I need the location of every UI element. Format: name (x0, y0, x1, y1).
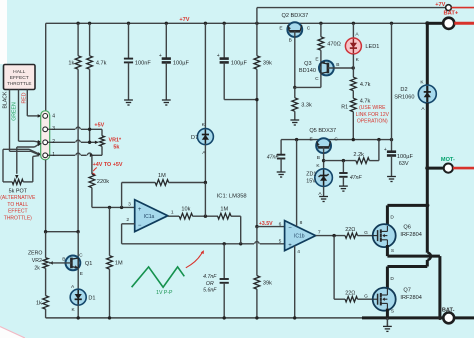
page margin white strip top-left (0, 0, 7, 64)
wire D7 anode down to feedback node (204, 145, 206, 183)
svg-text:+: + (384, 147, 387, 153)
wire IC1b output pin 7 (316, 235, 346, 237)
svg-text:THROTTLE): THROTTLE) (4, 216, 32, 222)
terminal +7V (446, 5, 452, 11)
svg-text:IRF2804: IRF2804 (400, 295, 421, 301)
svg-text:HALL: HALL (13, 69, 26, 75)
svg-text:TO HALL: TO HALL (7, 202, 28, 208)
transistor Q5 BDX37 (316, 138, 331, 153)
wire MOT- stub (427, 167, 444, 170)
resistor 39k lower (256, 227, 258, 276)
svg-text:Q7: Q7 (403, 288, 410, 294)
page margin white corner bottom-left (0, 326, 26, 338)
wire Q3 base to LED column (328, 67, 353, 69)
connector pin 1 (43, 153, 48, 158)
svg-text:+: + (159, 53, 162, 59)
svg-text:63V: 63V (399, 161, 409, 167)
svg-text:4.7k: 4.7k (360, 99, 371, 105)
capacitor 47nF left (280, 140, 282, 155)
ground 47nF right (342, 184, 344, 186)
wire Q3 collector down (320, 73, 322, 88)
svg-text:B: B (289, 37, 292, 43)
svg-text:G: G (364, 230, 368, 236)
ground 3.3k (294, 118, 296, 120)
wire IC1a pin 2 loop (122, 223, 135, 225)
ground 47nF left (280, 170, 282, 172)
wire MOT- node down to Q6 drain row (426, 168, 429, 205)
capacitor 100uF 63V (391, 140, 393, 152)
ground ZD1 (323, 195, 325, 197)
resistor 1k lower-left (43, 296, 49, 310)
svg-text:100µF: 100µF (173, 60, 190, 66)
svg-text:E: E (279, 25, 282, 31)
terminal MOT- (444, 164, 453, 173)
mosfet Q6 IRF2804 (373, 224, 396, 247)
ground 100uF 63V (391, 175, 393, 177)
svg-text:100µF: 100µF (231, 60, 248, 66)
svg-text:C: C (315, 76, 319, 82)
node pin 7 split (332, 234, 335, 237)
op-amp IC1b (285, 221, 316, 251)
svg-text:Q5 BDX37: Q5 BDX37 (309, 128, 336, 134)
resistor 4.7k upper right (350, 77, 356, 91)
wire to Q7 drain (387, 265, 427, 268)
connector pin 2 (43, 140, 48, 145)
resistor 4.7k (89, 23, 91, 56)
svg-text:E: E (309, 136, 312, 142)
wire +7V rail (46, 22, 428, 24)
svg-text:1: 1 (171, 209, 174, 215)
wire ZD1 anode to ground (323, 187, 325, 195)
mosfet Q7 IRF2804 (373, 288, 396, 311)
svg-text:7: 7 (318, 229, 321, 235)
arrow +4V-to-+5V pointer (93, 168, 97, 172)
potentiometer 5k POT (12, 179, 23, 184)
svg-text:22Ω: 22Ω (345, 291, 355, 297)
svg-text:470Ω: 470Ω (327, 41, 341, 47)
wire +7V branch to +7V terminal (256, 8, 258, 24)
resistor 1M feedback (121, 183, 123, 208)
svg-text:IC1a: IC1a (144, 214, 155, 220)
terminal BAT- (443, 313, 454, 324)
svg-text:IC1b: IC1b (294, 234, 305, 240)
resistor 1M to 0V (109, 207, 111, 255)
transistor Q2 BDX37 (287, 22, 302, 37)
wire 0V bus (46, 317, 363, 319)
svg-text:−: − (288, 225, 292, 231)
svg-text:LED1: LED1 (365, 44, 379, 50)
connector pin 3 (43, 127, 48, 132)
wire +7V to D7 (204, 23, 206, 128)
wire IC1b pin 8 supply (296, 140, 298, 227)
wire Q1 emitter to D1 (77, 268, 79, 290)
svg-text:BLACK: BLACK (2, 91, 8, 109)
diode D2 SR1060 (426, 23, 429, 85)
op-amp IC1a (135, 200, 168, 232)
svg-text:220k: 220k (97, 179, 109, 185)
wire Q2 base to Q3 collector (295, 86, 321, 88)
svg-text:C: C (307, 25, 311, 31)
svg-text:4.7nF: 4.7nF (203, 274, 217, 280)
wire 1M down to integrator net (240, 216, 242, 244)
waveform 1V P-P triangle (132, 267, 185, 287)
wire Q6 source to BAT- drop (386, 245, 389, 256)
svg-text:C: C (79, 252, 83, 258)
wire left feed from +7V rail down to connector pin 4 (45, 23, 47, 112)
svg-text:3: 3 (52, 126, 55, 132)
wire pin1 node down to VR2 (45, 160, 47, 232)
trimpot VR2 ZERO 2k (45, 232, 47, 258)
svg-text:S: S (391, 248, 394, 254)
svg-text:D2: D2 (400, 87, 407, 93)
svg-text:D1: D1 (88, 295, 95, 301)
resistor 3.3k (294, 87, 296, 98)
wire +7V column to node (391, 23, 393, 139)
wire 220k to IC1a pin 3 (92, 206, 135, 208)
svg-text:39k: 39k (263, 60, 272, 66)
svg-text:B: B (62, 257, 65, 263)
svg-text:D7: D7 (191, 135, 198, 141)
svg-text:R1: R1 (341, 104, 348, 110)
resistor R1 4.7k (350, 98, 356, 112)
svg-text:RED: RED (21, 92, 27, 103)
svg-text:+7V: +7V (435, 2, 445, 8)
resistor 22R lower (334, 298, 345, 300)
wire regulator node horizontal (281, 139, 391, 141)
wire pot wiper to pin 2 (16, 147, 18, 174)
resistor 1M output (218, 213, 232, 219)
ground 100uF (165, 98, 167, 100)
svg-text:2k: 2k (34, 266, 40, 272)
svg-text:Q6: Q6 (403, 225, 410, 231)
svg-text:+3.5V: +3.5V (259, 221, 273, 227)
svg-text:1k: 1k (68, 60, 74, 66)
svg-text:2: 2 (52, 139, 55, 145)
wire Q2 base down (294, 31, 296, 87)
terminal BAT+ (443, 18, 454, 29)
wire +7V to LED1 (352, 23, 354, 38)
svg-text:MOT-: MOT- (441, 157, 455, 163)
svg-text:2: 2 (126, 217, 129, 223)
svg-text:BD140: BD140 (299, 68, 316, 74)
zener ZD1 15V (315, 169, 333, 187)
wire Q6 drain row (387, 204, 427, 207)
capacitor 100nF (128, 23, 130, 58)
svg-text:Q2 BDX37: Q2 BDX37 (282, 13, 309, 19)
svg-text:8: 8 (300, 220, 303, 226)
svg-text:1: 1 (52, 152, 55, 158)
svg-text:ZERO: ZERO (28, 251, 42, 257)
wire pin 7 down to lower gate (333, 236, 335, 300)
svg-text:(USE WIRE: (USE WIRE (359, 105, 386, 111)
svg-text:1M: 1M (115, 261, 123, 267)
svg-text:E: E (80, 271, 83, 277)
svg-text:1k: 1k (36, 301, 42, 307)
transistor Q1 (77, 232, 79, 259)
svg-text:SR1060: SR1060 (394, 95, 414, 101)
svg-text:IRF2804: IRF2804 (400, 232, 421, 238)
svg-text:S: S (391, 309, 394, 315)
node Q5 base / 2.2k (322, 159, 325, 162)
wire green hall lead (18, 90, 20, 142)
node Q2 base / Q3 collector (293, 86, 296, 89)
resistor 2.2k (324, 160, 356, 162)
wire black hall lead (9, 90, 11, 152)
diode D1 (70, 289, 86, 305)
capacitor 100uF first (165, 23, 167, 58)
svg-text:+: + (138, 207, 142, 213)
wire IC1a output (168, 215, 179, 217)
svg-text:4.7k: 4.7k (96, 60, 107, 66)
svg-text:(ALTERNATIVE: (ALTERNATIVE (0, 195, 36, 201)
svg-text:Q3: Q3 (304, 61, 311, 67)
svg-text:B: B (336, 62, 339, 68)
svg-text:EFFECT: EFFECT (8, 209, 27, 215)
svg-text:15V: 15V (306, 178, 316, 184)
svg-text:39k: 39k (263, 281, 272, 287)
wire 100uF to 39k column (224, 99, 257, 101)
svg-text:5k POT: 5k POT (9, 188, 28, 194)
wire pin 3 row +5V (48, 128, 75, 130)
wire Q7 source to 0V bus (386, 309, 389, 318)
svg-text:D: D (390, 276, 394, 282)
svg-text:22Ω: 22Ω (345, 227, 355, 233)
svg-text:1M: 1M (220, 207, 228, 213)
svg-text:C: C (334, 136, 338, 142)
wire LED1 cathode down (352, 54, 354, 77)
svg-text:+5V: +5V (94, 123, 104, 129)
svg-text:G: G (364, 293, 368, 299)
svg-text:10k: 10k (181, 207, 190, 213)
svg-text:VR1*: VR1* (109, 138, 122, 144)
svg-text:+7V: +7V (179, 17, 189, 23)
wire VR2 node to Q1 collector (46, 231, 79, 233)
wire D1 cathode to 0V bus (77, 305, 79, 318)
svg-text:OPERATION): OPERATION) (357, 119, 388, 125)
svg-text:2.2k: 2.2k (353, 152, 364, 158)
wire D2 anode to MOT- node (426, 103, 429, 168)
svg-text:THROTTLE: THROTTLE (7, 81, 31, 86)
node Q6 drain junction (425, 203, 429, 207)
ground 100nF (128, 98, 130, 100)
wire 2.2k up to node (378, 140, 380, 161)
svg-text:1V P-P: 1V P-P (156, 290, 173, 296)
svg-text:5k: 5k (113, 145, 119, 151)
svg-text:47nF: 47nF (267, 154, 280, 160)
svg-text:LINK FOR 12V: LINK FOR 12V (356, 112, 390, 118)
svg-text:47nF: 47nF (350, 175, 363, 181)
svg-text:4: 4 (52, 114, 55, 120)
svg-text:Q1: Q1 (85, 261, 92, 267)
resistor 220k (91, 155, 93, 174)
svg-text:3.3k: 3.3k (301, 103, 312, 109)
LED LED1 (345, 38, 361, 54)
transistor Q3 BD140 (319, 61, 334, 76)
resistor 22R upper (345, 233, 357, 238)
capacitor 47nF right (342, 161, 344, 173)
node 39k junctions (255, 98, 258, 101)
wire Q5 base to ZD1 (323, 147, 325, 168)
svg-text:1M: 1M (158, 173, 166, 179)
wire pot right end up to pin 1 (23, 181, 33, 183)
svg-text:+: + (288, 243, 292, 249)
node Q3 base junction (352, 66, 355, 69)
resistor 39k upper (256, 23, 258, 56)
wire integrator net pin2 to IC1b pin 5 (122, 243, 254, 245)
hall effect throttle box (4, 65, 36, 90)
svg-text:+: + (217, 53, 220, 59)
svg-text:4.7k: 4.7k (360, 82, 371, 88)
svg-text:6: 6 (279, 221, 282, 227)
svg-text:GREEN: GREEN (12, 102, 18, 121)
capacitor 100uF second (223, 23, 225, 58)
wire IC1b pin 6 input (257, 226, 285, 228)
wire pot left end up to pin 1 (2, 149, 4, 182)
node MOT- (425, 166, 429, 170)
svg-text:VR2: VR2 (32, 258, 42, 264)
svg-text:100µF: 100µF (397, 154, 414, 160)
connector pin 4 (43, 114, 48, 119)
svg-text:3: 3 (128, 201, 131, 207)
svg-text:BAT+: BAT+ (443, 11, 458, 17)
resistor 470R (320, 23, 322, 37)
svg-text:ZD1: ZD1 (306, 171, 316, 177)
capacitor 4.7nF timing (223, 244, 225, 279)
wire red hall lead (26, 90, 28, 116)
ground main (386, 318, 388, 326)
node output junction (204, 215, 207, 218)
wire pin 2 row to VR1 wiper (48, 141, 75, 143)
svg-text:+4V TO +5V: +4V TO +5V (93, 162, 123, 168)
svg-text:E: E (315, 56, 318, 62)
svg-text:5: 5 (279, 239, 282, 245)
node BAT+ junction (425, 21, 429, 25)
node +7V rail junctions (76, 22, 79, 25)
svg-text:100nF: 100nF (135, 60, 151, 66)
wire feedback node to output junction (204, 183, 206, 217)
svg-text:OR: OR (206, 281, 214, 287)
wire thick BAT+ stub (427, 22, 443, 25)
svg-text:4: 4 (297, 249, 300, 255)
svg-text:IC1: LM358: IC1: LM358 (217, 193, 247, 199)
wire IC1b pin 4 to 0V (294, 246, 296, 318)
svg-text:−: − (138, 223, 142, 229)
svg-text:5.6nF: 5.6nF (203, 288, 217, 294)
resistor 10k (179, 213, 193, 219)
diode D7 (197, 129, 213, 145)
arrow waveform pointer (186, 252, 203, 268)
trimpot VR1 5k (101, 129, 103, 136)
svg-text:BAT-: BAT- (442, 307, 455, 313)
connector SK1 4-way (41, 111, 50, 160)
wire pin 1 row (48, 154, 75, 156)
wire MOT- node continues down with hop (426, 205, 429, 252)
resistor 1k top-left (77, 23, 79, 56)
svg-text:D: D (390, 214, 394, 220)
svg-text:B: B (317, 155, 320, 161)
